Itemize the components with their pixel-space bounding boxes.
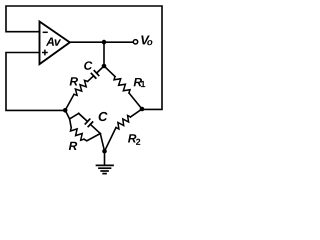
capacitor C (parallel arm) plate 1 xyxy=(85,119,89,124)
node B: bridge right junction dot xyxy=(140,107,145,112)
op-amp U1 minus sign xyxy=(43,31,47,33)
capacitor C (parallel arm) plate 2 xyxy=(88,122,92,127)
label: C (parallel arm) xyxy=(99,112,108,121)
wire: parallel C branch upper segment xyxy=(79,113,87,120)
label: output voltage Vo xyxy=(141,35,152,45)
wire: R1 arm upper segment xyxy=(104,66,115,77)
wire: non-inverting feedback net (plus input lead, left hook down, bottom-left run to node A) xyxy=(6,53,65,111)
op-amp U1 plus sign xyxy=(43,50,47,54)
node: bridge top junction dot xyxy=(102,64,107,69)
ground xyxy=(97,165,114,173)
label: R (parallel arm) xyxy=(69,142,77,150)
wire: series arm tail to node A xyxy=(65,94,74,110)
label: R1 xyxy=(134,78,146,87)
wire: drop from output junction to bridge top node xyxy=(103,42,105,66)
wire: op-amp output to terminal xyxy=(70,41,134,43)
capacitor C (series arm) plate 1 xyxy=(94,71,98,76)
wire: R2 arm tail to bottom node xyxy=(105,128,117,152)
wire: R1 arm lower segment to node B xyxy=(129,93,142,109)
resistor R2 zigzag xyxy=(116,116,131,130)
wire: parallel-RC left corner rise xyxy=(70,113,79,119)
capacitor C (series arm) plate 2 xyxy=(91,74,95,79)
label: R (series arm) xyxy=(70,77,78,85)
terminal: Vo open circle xyxy=(133,40,137,44)
op-amp U1 body (gain Av) xyxy=(40,22,70,65)
resistor R1 zigzag xyxy=(114,77,130,94)
label: op-amp gain Av xyxy=(46,37,61,45)
wire: inverting feedback net (minus input lead, left hook up, top run, right run, stub to node B) xyxy=(6,6,162,109)
wire: parallel-RC right corner to bottom node xyxy=(100,134,104,152)
node: output junction dot xyxy=(102,40,107,45)
resistor R (parallel arm) zigzag xyxy=(71,128,85,141)
node A: bridge left junction dot xyxy=(63,108,68,113)
wire: parallel C branch lower segment to right corner xyxy=(91,125,100,133)
wire: bottom node to ground xyxy=(104,151,106,164)
wire: series arm middle segment (capacitor C to resistor R) xyxy=(88,77,93,82)
wire: R2 arm upper segment from node B xyxy=(131,109,143,117)
wire: parallel R branch drop from left corner xyxy=(70,119,72,128)
label: R2 xyxy=(128,134,140,145)
resistor R (series arm) zigzag xyxy=(74,80,88,95)
wire: parallel-RC bottom corner to right corner xyxy=(84,134,100,141)
wire: node A to parallel-RC left corner xyxy=(65,110,69,119)
node: bridge bottom junction dot xyxy=(102,149,107,154)
label: C (series arm) xyxy=(84,61,92,69)
wire: series arm upper segment (bridge top node to capacitor C) xyxy=(98,66,105,72)
